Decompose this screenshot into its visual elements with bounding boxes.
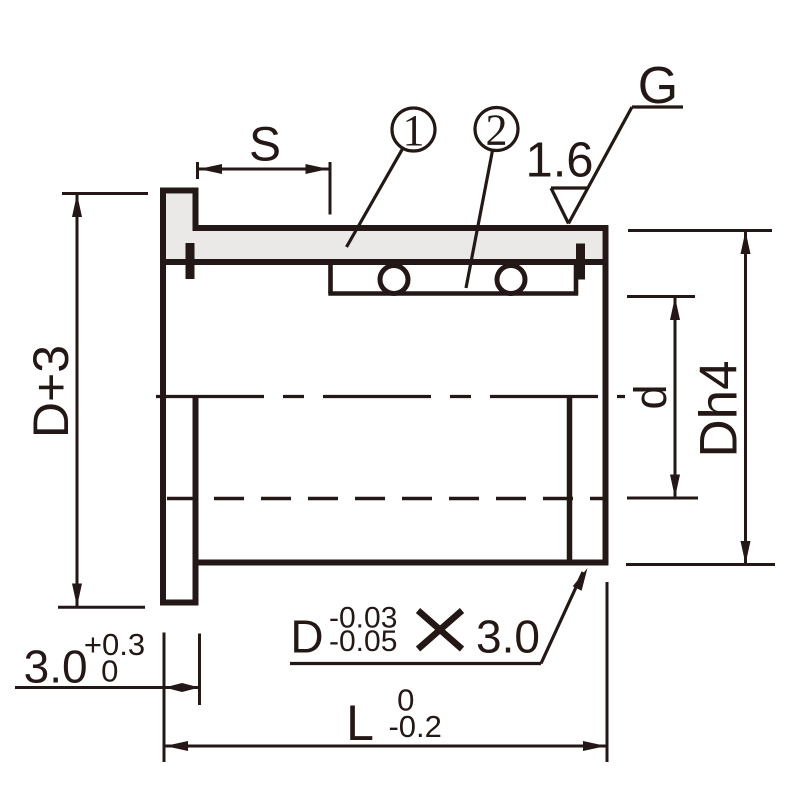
svg-text:1: 1 bbox=[403, 106, 425, 155]
svg-text:G: G bbox=[638, 57, 678, 115]
svg-text:1.6: 1.6 bbox=[525, 134, 593, 188]
svg-text:-0.05: -0.05 bbox=[329, 625, 397, 658]
svg-text:Dh4: Dh4 bbox=[690, 360, 749, 457]
svg-text:D: D bbox=[290, 611, 323, 663]
svg-text:0: 0 bbox=[101, 654, 118, 689]
svg-text:D+3: D+3 bbox=[23, 345, 79, 438]
svg-text:-0.2: -0.2 bbox=[388, 709, 441, 744]
svg-text:2: 2 bbox=[486, 106, 508, 155]
svg-text:S: S bbox=[249, 119, 281, 172]
svg-text:d: d bbox=[625, 384, 676, 409]
svg-text:L: L bbox=[346, 695, 374, 751]
svg-text:3.0: 3.0 bbox=[476, 611, 540, 663]
svg-text:3.0: 3.0 bbox=[24, 641, 88, 693]
